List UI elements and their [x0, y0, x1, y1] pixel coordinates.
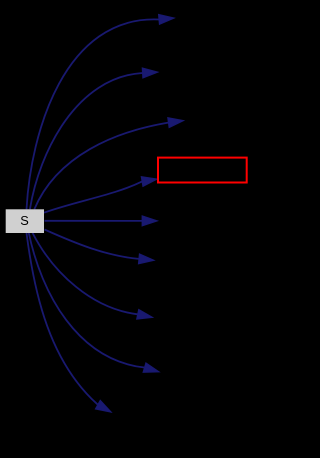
edge S->n3 arrowhead — [168, 118, 184, 128]
edge S->n2 wire — [30, 73, 142, 209]
edge S->n9 wire — [27, 233, 98, 405]
edge S->n1 wire — [27, 19, 159, 209]
edge S->n4 arrowhead — [141, 177, 157, 187]
edge S->n3 wire — [34, 123, 168, 210]
edge S->n5 wire — [45, 220, 143, 222]
edge S->n6 wire — [45, 230, 139, 259]
edge S->n7 arrowhead — [137, 309, 154, 319]
node S box — [6, 209, 44, 233]
edge S->n8 arrowhead — [143, 363, 160, 373]
edge S->n4 wire — [44, 182, 142, 213]
highlighted node n4 (red box) — [158, 158, 247, 183]
edge S->n5 arrowhead — [142, 216, 158, 226]
edge S->n2 arrowhead — [142, 68, 158, 78]
edge S->n1 arrowhead — [158, 14, 174, 24]
svg-text:S: S — [20, 213, 29, 228]
edge S->n7 wire — [33, 233, 138, 314]
edge S->n8 wire — [29, 233, 145, 368]
edge S->n9 arrowhead — [95, 400, 111, 412]
edge S->n6 arrowhead — [138, 254, 154, 264]
